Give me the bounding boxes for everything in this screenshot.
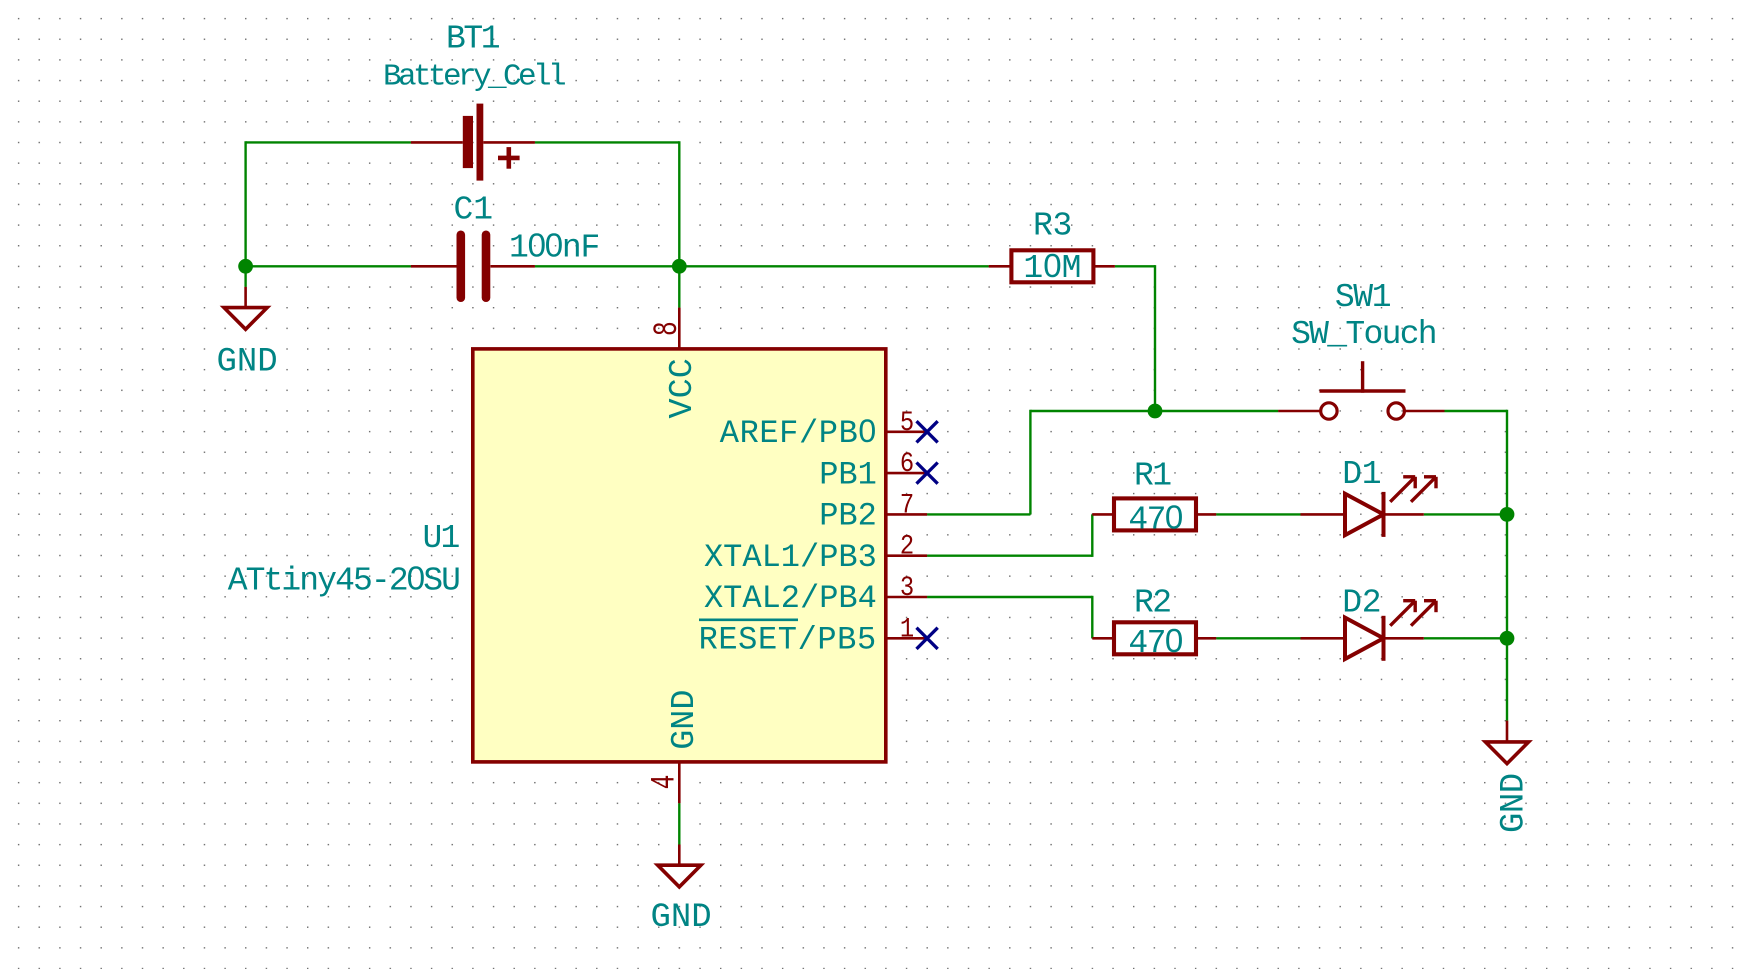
svg-text:Battery_Cell: Battery_Cell	[383, 60, 565, 95]
svg-text:10M: 10M	[1023, 247, 1081, 287]
svg-text:6: 6	[900, 447, 914, 479]
svg-text:470: 470	[1128, 622, 1182, 662]
svg-text:ATtiny45-20SU: ATtiny45-20SU	[228, 560, 459, 600]
svg-text:SW_Touch: SW_Touch	[1291, 316, 1436, 353]
svg-text:VCC: VCC	[664, 358, 702, 418]
svg-text:4: 4	[645, 775, 684, 790]
svg-text:R3: R3	[1033, 208, 1072, 245]
svg-text:D1: D1	[1342, 456, 1381, 493]
svg-text:RESET/PB5: RESET/PB5	[699, 622, 877, 659]
svg-text:GND: GND	[1496, 773, 1534, 833]
svg-text:2: 2	[900, 530, 914, 562]
svg-text:3: 3	[900, 571, 914, 603]
svg-text:GND: GND	[666, 689, 704, 749]
svg-text:R2: R2	[1134, 585, 1170, 622]
svg-text:R1: R1	[1134, 458, 1171, 495]
svg-text:XTAL1/PB3: XTAL1/PB3	[704, 539, 877, 576]
svg-text:7: 7	[900, 489, 914, 521]
svg-text:8: 8	[647, 321, 686, 336]
svg-text:470: 470	[1128, 499, 1182, 539]
svg-text:PB1: PB1	[819, 456, 877, 493]
svg-text:U1: U1	[422, 520, 459, 557]
svg-text:GND: GND	[217, 344, 278, 382]
svg-text:1: 1	[900, 613, 914, 645]
svg-text:5: 5	[900, 406, 914, 438]
svg-text:PB2: PB2	[819, 498, 877, 535]
svg-text:GND: GND	[651, 899, 712, 937]
svg-text:SW1: SW1	[1335, 279, 1391, 316]
svg-text:C1: C1	[454, 192, 494, 229]
svg-text:BT1: BT1	[446, 21, 500, 58]
svg-text:100nF: 100nF	[509, 227, 599, 267]
svg-text:XTAL2/PB4: XTAL2/PB4	[704, 580, 877, 617]
svg-text:D2: D2	[1342, 585, 1381, 622]
svg-text:AREF/PB0: AREF/PB0	[720, 413, 877, 452]
